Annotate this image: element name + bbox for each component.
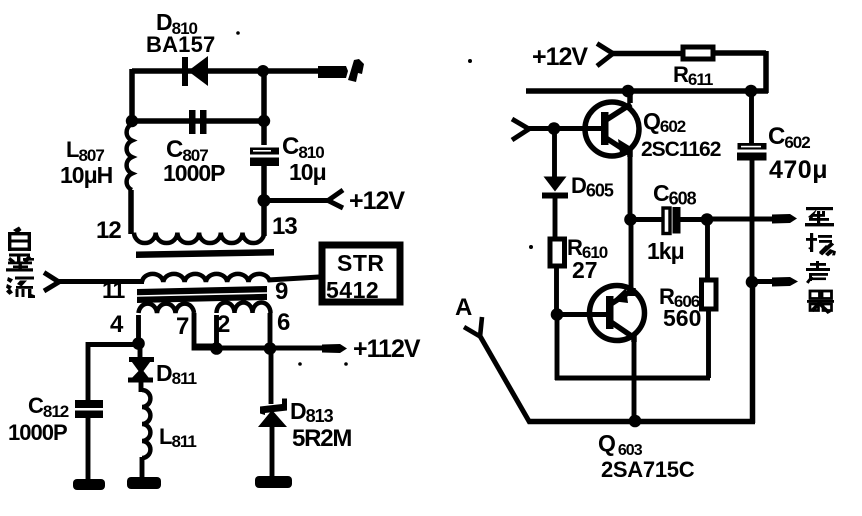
wire R606 xyxy=(705,220,710,282)
wire input to winding 11 xyxy=(58,279,144,284)
svg-text:6: 6 xyxy=(277,309,290,336)
node dot top xyxy=(257,65,269,77)
text qi (CJK) xyxy=(807,291,834,314)
node dot output 2 xyxy=(746,276,759,289)
resistor R610 xyxy=(550,239,565,266)
speck xyxy=(298,362,302,366)
wire D811 to L811 xyxy=(139,382,144,392)
svg-text:13: 13 xyxy=(272,213,297,240)
transformer core bars 2,3 xyxy=(137,286,267,303)
input terminal arrow (self-rect) xyxy=(44,273,59,292)
wire +12V to R611 xyxy=(612,51,683,57)
node dot pin2 line xyxy=(210,342,223,355)
wire winding9 to STR xyxy=(268,277,319,280)
capacitor C602 xyxy=(737,143,767,284)
terminal +12V arrow xyxy=(328,190,343,208)
wire Q603 emitter down xyxy=(632,340,637,422)
wire to +12V xyxy=(264,198,329,203)
text zheng (CJK) xyxy=(6,254,34,272)
capacitor C810 xyxy=(250,148,279,237)
svg-text:A: A xyxy=(455,294,472,321)
svg-text:560: 560 xyxy=(663,305,701,331)
transistor Q603 xyxy=(590,286,645,343)
svg-text:10μH: 10μH xyxy=(60,162,113,188)
speck xyxy=(529,245,533,249)
transformer winding 12-13 xyxy=(134,233,264,244)
ground under C812 xyxy=(73,479,105,490)
wire base Q603 xyxy=(557,312,608,317)
terminal +12V arrow xyxy=(597,44,613,67)
svg-text:4: 4 xyxy=(110,311,124,338)
node dot xyxy=(126,115,138,127)
svg-text:+12V: +12V xyxy=(532,43,588,71)
wire to D605 xyxy=(552,129,557,179)
capacitor C807 xyxy=(189,110,207,134)
wire pin6 to D813 xyxy=(269,348,274,404)
wire R610 to base Q603 xyxy=(554,266,559,316)
svg-text:5R2M: 5R2M xyxy=(292,425,351,452)
inductor L811 xyxy=(142,390,150,480)
text zi (CJK) xyxy=(8,227,31,252)
svg-text:10μ: 10μ xyxy=(289,159,326,185)
text sheng (CJK) xyxy=(806,261,830,284)
svg-text:12: 12 xyxy=(96,217,121,244)
text yang (CJK) xyxy=(806,233,836,256)
RIGHT CIRCUIT xyxy=(455,43,836,482)
node dot pin4 xyxy=(132,337,145,350)
capacitor C608 xyxy=(663,207,681,234)
arrowhead +112V xyxy=(322,344,347,353)
zener D813 xyxy=(258,399,287,480)
diode D605 xyxy=(542,177,568,241)
svg-text:2SA715C: 2SA715C xyxy=(601,457,695,482)
node dot base-D605 xyxy=(548,122,561,135)
svg-text:2SC1162: 2SC1162 xyxy=(641,138,721,161)
svg-text:2: 2 xyxy=(217,311,230,338)
node dot xyxy=(258,115,270,127)
terminal base arrow xyxy=(512,119,529,140)
LEFT CIRCUIT xyxy=(6,9,421,490)
svg-text:1000P: 1000P xyxy=(163,160,225,186)
STR5412 box U801 xyxy=(322,245,400,302)
transformer winding 4-7 xyxy=(139,304,219,348)
node dot bottom xyxy=(629,415,642,428)
wire diagonal to A xyxy=(464,317,530,423)
speck xyxy=(236,31,240,35)
wire node to C608 xyxy=(630,217,664,222)
transistor Q602 xyxy=(585,91,639,157)
ground under L811 xyxy=(127,477,161,489)
wire base Q602 xyxy=(528,126,603,131)
svg-text:BA157: BA157 xyxy=(146,32,215,57)
rail wire xyxy=(526,88,768,94)
svg-text:9: 9 xyxy=(275,278,288,305)
svg-text:STR: STR xyxy=(337,250,385,276)
wire pin4 to C812 xyxy=(86,342,139,402)
node dot pin6 line xyxy=(264,342,277,355)
node dot rail-collector xyxy=(622,85,635,98)
varistor D811 xyxy=(128,343,154,383)
node dot C608 right xyxy=(701,213,714,226)
wire C608 to node xyxy=(680,217,708,222)
node dot +12V xyxy=(258,194,271,207)
wire output 2 xyxy=(752,279,780,284)
transformer winding 11-9 xyxy=(142,274,270,282)
capacitor C812 xyxy=(75,400,103,481)
transformer winding 2-6 xyxy=(217,303,271,349)
text zhi (CJK) xyxy=(805,207,834,226)
wire +112V line xyxy=(195,346,330,348)
svg-text:1000P: 1000P xyxy=(8,420,67,445)
wire top rail to A xyxy=(132,68,322,74)
speck xyxy=(344,362,348,366)
svg-text:5412: 5412 xyxy=(326,277,379,303)
transformer core bar 1 xyxy=(136,249,274,258)
arrowhead output 2 xyxy=(772,277,798,287)
svg-text:+12V: +12V xyxy=(349,187,405,215)
ground under D813 xyxy=(255,476,292,488)
wire output 1 xyxy=(707,217,780,222)
svg-text:11: 11 xyxy=(102,277,126,303)
inductor L807 xyxy=(127,124,132,234)
arrowhead output 1 xyxy=(772,214,797,224)
wire C602 branch top xyxy=(749,91,754,146)
svg-text:7: 7 xyxy=(176,313,189,340)
svg-text:1kμ: 1kμ xyxy=(647,238,684,264)
wire R611 to rail corner xyxy=(713,51,766,93)
diode D810 xyxy=(182,56,208,86)
wire bottom xyxy=(528,281,755,423)
node dot base Q603 xyxy=(551,308,564,321)
wire left vertical xyxy=(129,69,135,124)
node dot C608 left xyxy=(624,213,637,226)
speck xyxy=(468,59,472,63)
text liu (CJK) xyxy=(6,277,35,299)
wire right vertical xyxy=(261,71,267,145)
wire R606 bottom loop xyxy=(555,308,710,380)
node dot rail-C602 xyxy=(745,85,758,98)
arrowhead to A xyxy=(318,59,364,82)
svg-text:+112V: +112V xyxy=(353,335,421,363)
svg-text:27: 27 xyxy=(572,257,598,283)
svg-text:470μ: 470μ xyxy=(769,156,828,184)
wire collector Q603 to node xyxy=(629,219,634,296)
wire emitter Q602 to node xyxy=(628,155,633,220)
resistor R611 xyxy=(683,47,713,59)
resistor R606 xyxy=(702,280,717,309)
wire C807 branch xyxy=(132,118,264,124)
